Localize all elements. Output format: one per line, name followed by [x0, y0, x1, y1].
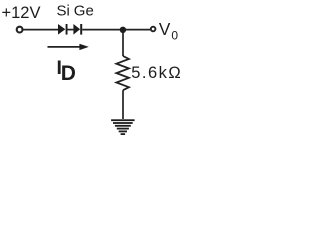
diode D1 (Si) [58, 24, 68, 35]
resistor R1 zigzag [116, 56, 128, 90]
current arrow ID [48, 44, 89, 50]
svg-text:+12V: +12V [2, 4, 41, 22]
svg-text:Si: Si [57, 3, 70, 20]
svg-text:D: D [61, 62, 76, 85]
ground symbol [111, 119, 135, 135]
terminal V0 [151, 27, 156, 32]
wire from node down to resistor [122, 30, 124, 56]
diode D2 (Ge) [73, 24, 82, 35]
svg-text:0: 0 [171, 28, 178, 42]
node V0 label [159, 19, 179, 43]
svg-text:V: V [159, 19, 171, 39]
terminal +12V [17, 27, 23, 33]
wire from +12V terminal to diode D1 [23, 29, 59, 31]
wire between diodes [68, 29, 74, 31]
current label ID [57, 57, 76, 85]
svg-text:5.6kΩ: 5.6kΩ [131, 64, 182, 82]
wire from diode D2 to terminal V0 [82, 29, 151, 31]
node junction dot [120, 27, 126, 33]
wire from resistor to ground [122, 90, 124, 119]
svg-text:Ge: Ge [74, 3, 94, 20]
